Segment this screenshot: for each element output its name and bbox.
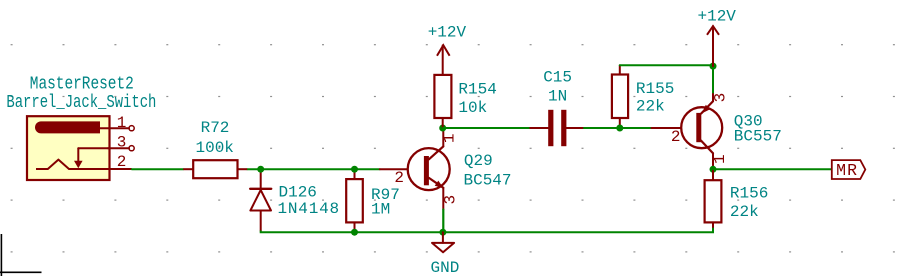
svg-text:Barrel_Jack_Switch: Barrel_Jack_Switch xyxy=(6,92,156,113)
svg-text:3: 3 xyxy=(441,195,459,205)
svg-text:MR: MR xyxy=(836,161,858,180)
svg-text:+12V: +12V xyxy=(428,23,467,41)
svg-text:D126: D126 xyxy=(279,183,317,201)
svg-text:C15: C15 xyxy=(543,69,572,87)
svg-text:1N4148: 1N4148 xyxy=(278,200,340,218)
svg-text:BC547: BC547 xyxy=(464,171,512,189)
svg-text:1N: 1N xyxy=(548,87,567,105)
svg-text:R72: R72 xyxy=(201,119,230,137)
svg-text:10k: 10k xyxy=(458,99,487,117)
svg-text:100k: 100k xyxy=(195,139,233,157)
svg-text:1: 1 xyxy=(440,133,458,143)
svg-text:R155: R155 xyxy=(636,80,674,98)
svg-text:R154: R154 xyxy=(458,81,496,99)
svg-text:Q29: Q29 xyxy=(464,152,493,170)
svg-text:1: 1 xyxy=(711,154,729,164)
svg-text:+12V: +12V xyxy=(697,8,736,26)
svg-text:BC557: BC557 xyxy=(734,128,782,146)
svg-text:2: 2 xyxy=(671,128,681,146)
svg-text:22k: 22k xyxy=(730,203,759,221)
svg-text:2: 2 xyxy=(394,169,404,187)
svg-text:GND: GND xyxy=(430,259,459,276)
svg-text:2: 2 xyxy=(117,153,127,171)
svg-text:R156: R156 xyxy=(730,185,768,203)
svg-text:22k: 22k xyxy=(636,98,665,116)
svg-text:3: 3 xyxy=(117,134,127,152)
svg-text:1: 1 xyxy=(117,114,127,132)
svg-text:3: 3 xyxy=(712,93,730,103)
svg-text:1M: 1M xyxy=(371,200,390,218)
